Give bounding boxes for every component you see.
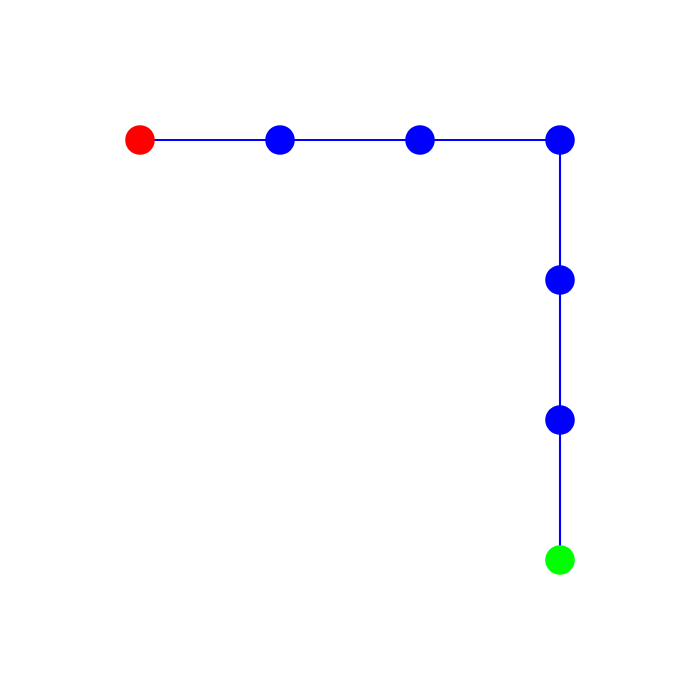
node G: goal (green dot at 560,560) [545,545,575,575]
node B (blue waypoint dot at 280,140) [265,125,295,155]
node A: start (red dot at 140,140) [125,125,155,155]
wire: horizontal segment from start node to corner node [140,139,560,141]
node D (blue corner waypoint dot at 560,140) [545,125,575,155]
node F (blue waypoint dot at 560,420) [545,405,575,435]
node E (blue waypoint dot at 560,280) [545,265,575,295]
wire: vertical segment from corner node down to goal node [559,140,561,560]
node C (blue waypoint dot at 420,140) [405,125,435,155]
